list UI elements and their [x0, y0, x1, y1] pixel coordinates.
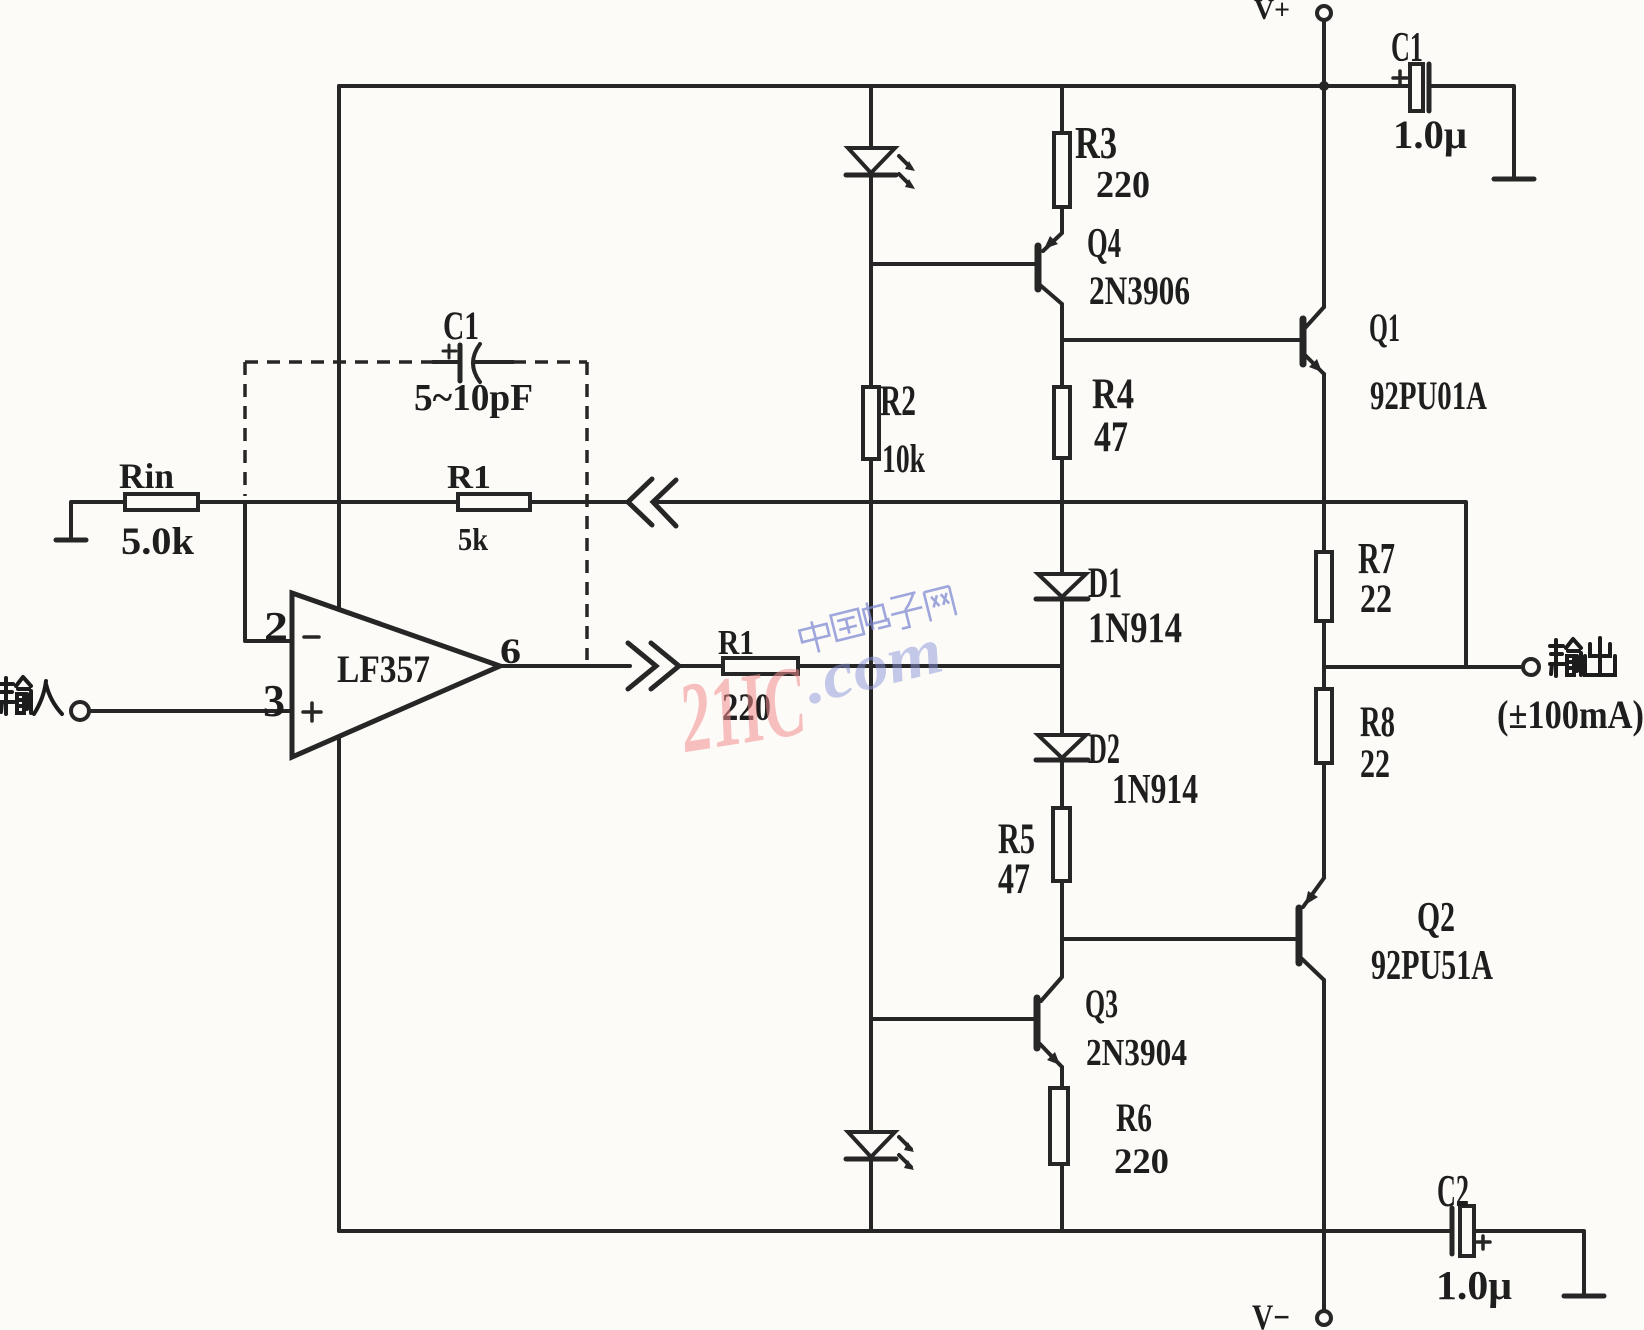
svg-text:V−: V− — [1252, 1297, 1290, 1330]
transistor Q2 bar — [1296, 908, 1303, 963]
wire C2 to ground stub — [1475, 1231, 1584, 1294]
LED D6 bottom — [848, 1132, 895, 1157]
wire top V+ rail — [339, 84, 1410, 88]
diode D1 — [1038, 574, 1086, 597]
transistor Q4 bar — [1035, 246, 1042, 289]
capacitor C1 (top right) plates — [1410, 64, 1423, 111]
plus sign C1 top — [1393, 71, 1407, 85]
wire LED2 to bottom rail — [869, 1161, 873, 1231]
svg-text:C1: C1 — [1391, 25, 1423, 71]
ground tick top right — [1494, 177, 1534, 182]
wire Q3 emitter to R6 — [1060, 1067, 1064, 1088]
svg-text:5.0k: 5.0k — [121, 520, 194, 563]
plus sign C2 — [1477, 1236, 1490, 1249]
op-amp plus sign — [303, 703, 321, 721]
transistor Q4 collector — [1040, 285, 1062, 340]
svg-text:.com: .com — [796, 614, 950, 719]
resistor R6 — [1050, 1088, 1068, 1164]
wire R6 to bottom rail — [1060, 1164, 1064, 1231]
transistor Q2 collector — [1301, 958, 1324, 1311]
wire bottom V- rail — [339, 1229, 1451, 1233]
resistor R8 — [1316, 689, 1332, 763]
wire output node to R8 — [1322, 667, 1326, 689]
svg-text:C1: C1 — [443, 303, 479, 348]
svg-text:R8: R8 — [1360, 699, 1395, 746]
svg-text:R4: R4 — [1092, 371, 1134, 418]
svg-text:2N3904: 2N3904 — [1086, 1032, 1187, 1074]
wire Q4 collector to Q1 base — [1062, 338, 1299, 342]
wire R8 to Q2 emitter — [1303, 763, 1324, 907]
wire Q2 base line — [1062, 937, 1295, 941]
wire D2 anode — [1060, 666, 1064, 735]
transistor Q2 emitter arrow (PNP, into bar) — [1305, 891, 1318, 905]
wire to R4 — [1060, 340, 1064, 387]
plus sign C1 small — [443, 345, 456, 358]
svg-text:D2: D2 — [1088, 726, 1120, 773]
wire R3 branch from rail — [1060, 86, 1064, 133]
svg-text:21IC: 21IC — [671, 645, 813, 774]
wire to Q3 collector — [1041, 939, 1062, 1001]
ground symbol at Rin — [56, 538, 86, 543]
svg-text:LF357: LF357 — [337, 648, 430, 691]
wire R2 down through to LED2 — [869, 459, 873, 1132]
wire V+ rail down to Q1 collector — [1322, 86, 1326, 307]
svg-text:2: 2 — [264, 603, 288, 649]
transistor Q4 emitter arrow (PNP, into bar) — [1044, 236, 1058, 249]
resistor R1 220 — [723, 658, 798, 674]
svg-text:3: 3 — [263, 675, 285, 726]
svg-text:R3: R3 — [1075, 118, 1117, 168]
svg-text:R6: R6 — [1116, 1095, 1152, 1140]
node input terminal — [71, 702, 89, 720]
svg-text:5~10pF: 5~10pF — [414, 377, 533, 419]
svg-text:(±100mA): (±100mA) — [1497, 692, 1644, 737]
svg-text:22: 22 — [1360, 741, 1390, 786]
svg-text:1N914: 1N914 — [1112, 767, 1198, 813]
wire LED1 branch from rail — [869, 86, 873, 148]
wire inverting input branch to pin 2 — [245, 502, 292, 641]
svg-text:1.0μ: 1.0μ — [1393, 112, 1467, 157]
svg-text:2N3906: 2N3906 — [1089, 268, 1190, 313]
wire C1 to ground stub — [1431, 86, 1514, 177]
op-amp U1 LF357 triangle — [292, 593, 500, 757]
resistor R4 — [1054, 387, 1070, 458]
svg-text:22: 22 — [1360, 576, 1392, 621]
wire D2 to R5 — [1060, 762, 1064, 808]
label shuchu (output) chinese glyphs — [1550, 638, 1615, 676]
wire R1 to D1/D2 node — [798, 664, 1062, 668]
svg-text:1.0μ: 1.0μ — [1436, 1262, 1512, 1308]
transistor Q1 collector — [1305, 307, 1324, 328]
svg-text:V+: V+ — [1254, 0, 1290, 26]
svg-text:D1: D1 — [1088, 560, 1122, 607]
wire Q4 base line — [871, 262, 1035, 266]
svg-text:5k: 5k — [458, 521, 488, 557]
svg-text:R1: R1 — [447, 459, 491, 496]
watermark .com blue — [796, 614, 950, 719]
arrows chevrons right (signal direction) — [628, 643, 679, 689]
transistor Q3 emitter (NPN arrow out) — [1040, 1044, 1062, 1067]
transistor Q3 bar — [1034, 998, 1041, 1048]
wire input to pin 3 — [89, 709, 292, 713]
wire R7 to output node — [1322, 621, 1326, 667]
watermark 21IC red — [671, 645, 813, 774]
svg-text:C2: C2 — [1437, 1166, 1469, 1216]
resistor R3 — [1054, 133, 1070, 207]
wire R4 to D1 — [1060, 458, 1064, 574]
transistor Q1 emitter (NPN arrow out) — [1305, 355, 1324, 374]
wire left supply drop to op-amp V+ pin — [337, 86, 341, 611]
svg-text:10k: 10k — [882, 436, 926, 481]
wire output line — [1324, 665, 1522, 669]
resistor Rin — [125, 494, 198, 510]
resistor R7 — [1316, 552, 1332, 621]
resistor R1 5k (feedback) — [458, 494, 530, 510]
svg-text:Q1: Q1 — [1369, 305, 1400, 350]
node V+ terminal — [1317, 6, 1331, 20]
wire R3 to Q4 emitter — [1043, 207, 1062, 251]
diode D2 — [1038, 735, 1086, 758]
dashed compensation box — [245, 362, 587, 660]
svg-text:Q3: Q3 — [1085, 981, 1118, 1026]
wire V+ terminal to rail — [1322, 20, 1326, 86]
svg-text:Q2: Q2 — [1417, 895, 1455, 941]
svg-text:Q4: Q4 — [1087, 221, 1121, 267]
arrows chevrons left (feedback direction) — [628, 479, 676, 526]
wire feedback line right — [653, 502, 1466, 667]
svg-text:47: 47 — [998, 856, 1030, 903]
wire feedback line left — [198, 500, 628, 504]
wire D1 to output node — [1060, 601, 1064, 666]
resistor R5 — [1053, 808, 1070, 881]
svg-text:220: 220 — [1096, 164, 1150, 206]
ground tick bottom right — [1564, 1294, 1604, 1299]
node junction dot V+ rail — [1319, 81, 1329, 91]
capacitor C1 small (compensation) plates — [433, 360, 457, 364]
svg-text:R2: R2 — [880, 378, 916, 425]
svg-text:Rin: Rin — [119, 456, 174, 496]
node output terminal — [1523, 659, 1539, 675]
svg-text:47: 47 — [1094, 414, 1128, 461]
LED D5 top — [848, 148, 895, 173]
resistor R2 — [863, 387, 879, 459]
wire op-amp output pin 6 — [500, 664, 630, 668]
op-amp minus sign — [304, 635, 319, 639]
label shuru (input) chinese glyphs — [0, 677, 62, 714]
wire chevron to R1 — [680, 664, 723, 668]
wire R5 to Q2 base node — [1060, 881, 1064, 939]
svg-text:220: 220 — [1114, 1141, 1169, 1181]
capacitor C2 plates — [1450, 1208, 1455, 1254]
watermark zhongguo dianziwang blue — [797, 582, 957, 656]
node V- terminal — [1317, 1311, 1331, 1325]
transistor Q1 bar — [1300, 319, 1307, 364]
wire op-amp V- pin down to bottom rail — [337, 737, 341, 1231]
svg-text:6: 6 — [500, 631, 521, 671]
wire Q1 emitter to R7 — [1322, 374, 1326, 552]
wire Q3 base line — [871, 1017, 1034, 1021]
svg-text:92PU51A: 92PU51A — [1371, 943, 1493, 989]
wire LED1 to R2 — [869, 177, 873, 387]
svg-text:92PU01A: 92PU01A — [1370, 373, 1487, 418]
svg-text:1N914: 1N914 — [1088, 605, 1182, 652]
